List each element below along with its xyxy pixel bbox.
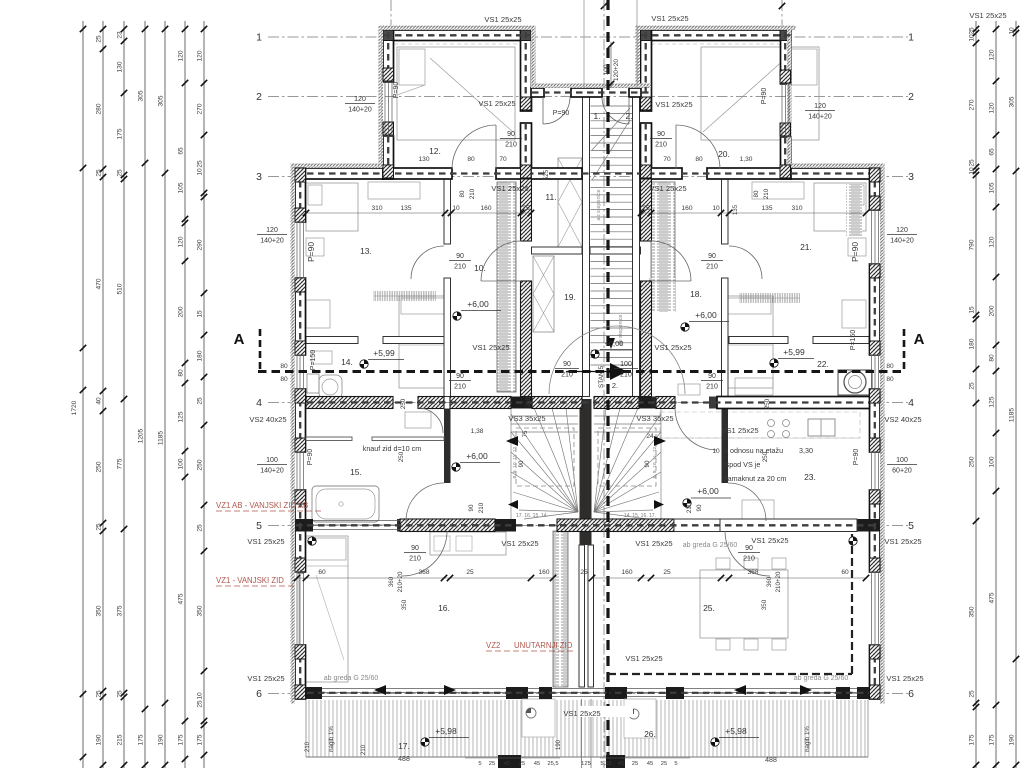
knauf partition wall room15 bbox=[306, 437, 352, 441]
grid3 wall band bbox=[295, 168, 383, 179]
svg-text:25: 25 bbox=[96, 690, 103, 698]
svg-text:A: A bbox=[914, 331, 925, 348]
svg-text:80: 80 bbox=[886, 376, 894, 383]
wall rooms 18/21 partition x721 bbox=[722, 179, 729, 244]
grid6 wall band blocks bbox=[295, 687, 322, 699]
svg-text:120: 120 bbox=[266, 227, 278, 234]
svg-text:+6,00: +6,00 bbox=[605, 339, 624, 348]
door room10 bbox=[481, 241, 521, 281]
right dimension column 2 bbox=[989, 21, 1000, 768]
svg-text:25: 25 bbox=[969, 27, 976, 35]
dashed beam outline room 25 bbox=[608, 673, 852, 675]
winder stair right fan bbox=[594, 408, 661, 519]
grid6 extra blocks bbox=[539, 687, 552, 699]
svg-text:210: 210 bbox=[620, 372, 632, 379]
svg-text:210+20: 210+20 bbox=[397, 571, 404, 592]
svg-text:45: 45 bbox=[647, 761, 653, 767]
insulated wall strip room 18 bbox=[651, 182, 675, 308]
svg-text:25: 25 bbox=[969, 690, 976, 698]
svg-text:25,5: 25,5 bbox=[547, 761, 558, 767]
svg-text:80: 80 bbox=[467, 156, 475, 163]
svg-text:105: 105 bbox=[989, 182, 996, 193]
partition rooms13/14 y336 bbox=[306, 337, 358, 344]
svg-text:350: 350 bbox=[969, 606, 976, 617]
svg-text:u odnosu na etažu: u odnosu na etažu bbox=[724, 446, 783, 455]
svg-text:250: 250 bbox=[96, 461, 103, 472]
door bath 14 grid4 bbox=[418, 408, 443, 433]
jamb hatch blocks outer right wall bbox=[870, 168, 881, 182]
stair tower projection lines top bbox=[583, 0, 585, 88]
svg-text:135: 135 bbox=[732, 204, 739, 215]
svg-text:250: 250 bbox=[400, 398, 407, 409]
svg-text:2: 2 bbox=[908, 91, 914, 103]
svg-text:175: 175 bbox=[197, 734, 204, 745]
svg-text:6: 6 bbox=[256, 688, 262, 700]
svg-text:25: 25 bbox=[642, 205, 650, 212]
svg-text:80: 80 bbox=[459, 190, 466, 197]
svg-text:8. 9. 10. 11. 12.: 8. 9. 10. 11. 12. bbox=[652, 446, 658, 479]
center axis dash-dot line bbox=[603, 0, 605, 768]
svg-text:25: 25 bbox=[197, 524, 204, 532]
svg-text:350: 350 bbox=[197, 605, 204, 616]
bathtub room 15 bbox=[312, 486, 379, 522]
kitchen sink room 23 bbox=[808, 419, 835, 436]
party double wall below grid5 bbox=[579, 545, 585, 687]
big entry swing arc bbox=[549, 326, 685, 394]
bed room 20 bbox=[701, 47, 819, 140]
outer right wall (windows) bbox=[870, 168, 881, 210]
kitchen hob room 23 bbox=[768, 420, 775, 427]
party wall lines through terrace bbox=[581, 699, 583, 768]
svg-text:15: 15 bbox=[197, 310, 204, 318]
svg-text:250: 250 bbox=[651, 396, 658, 407]
svg-text:350: 350 bbox=[96, 605, 103, 616]
detail dots grid5 bbox=[308, 537, 316, 545]
svg-text:120: 120 bbox=[814, 103, 826, 110]
svg-text:VS1 25x25: VS1 25x25 bbox=[886, 674, 923, 683]
svg-text:2.: 2. bbox=[612, 381, 618, 390]
svg-text:4: 4 bbox=[908, 397, 914, 409]
svg-text:VS1 25x25: VS1 25x25 bbox=[649, 184, 686, 193]
svg-text:+5,99: +5,99 bbox=[373, 348, 395, 358]
top wall room 12 bbox=[383, 30, 531, 41]
svg-text:80: 80 bbox=[280, 376, 288, 383]
svg-text:90: 90 bbox=[708, 373, 716, 380]
winder stair left fan bbox=[511, 408, 578, 519]
svg-text:1185: 1185 bbox=[158, 431, 165, 446]
svg-text:210: 210 bbox=[763, 188, 770, 199]
svg-text:125: 125 bbox=[178, 411, 185, 422]
svg-text:175: 175 bbox=[969, 734, 976, 745]
svg-text:nagib 1%: nagib 1% bbox=[328, 726, 335, 752]
svg-text:90: 90 bbox=[456, 373, 464, 380]
svg-text:ispod VS je: ispod VS je bbox=[724, 460, 760, 469]
stipple band outer left wall bbox=[291, 164, 296, 704]
svg-text:140+20: 140+20 bbox=[260, 238, 284, 245]
terrace bottom columns bbox=[498, 755, 521, 768]
dresser room 13 bbox=[306, 300, 330, 328]
svg-text:1205: 1205 bbox=[138, 428, 145, 443]
svg-text:270: 270 bbox=[969, 99, 976, 110]
svg-text:18.: 18. bbox=[690, 289, 702, 299]
dim row rooms 13/10 y213 bbox=[306, 212, 531, 214]
left wall room 20 (door gap) bbox=[641, 30, 652, 111]
svg-text:16.: 16. bbox=[438, 603, 450, 613]
svg-text:250: 250 bbox=[764, 398, 771, 409]
dim line above recess bbox=[610, 42, 612, 88]
door room25 grid5 bbox=[725, 531, 770, 576]
svg-text:360: 360 bbox=[766, 576, 773, 587]
svg-text:10: 10 bbox=[452, 205, 460, 212]
svg-text:160: 160 bbox=[480, 205, 491, 212]
svg-text:120: 120 bbox=[178, 236, 185, 247]
svg-text:14.: 14. bbox=[341, 357, 353, 367]
svg-text:175: 175 bbox=[178, 734, 185, 745]
svg-text:25: 25 bbox=[489, 761, 495, 767]
svg-text:775: 775 bbox=[117, 458, 124, 469]
svg-text:3: 3 bbox=[256, 171, 262, 183]
svg-text:25: 25 bbox=[969, 382, 976, 390]
svg-text:210: 210 bbox=[361, 744, 367, 755]
svg-text:1.: 1. bbox=[593, 111, 600, 121]
svg-text:90: 90 bbox=[456, 253, 464, 260]
svg-text:210: 210 bbox=[478, 502, 485, 513]
svg-text:25.: 25. bbox=[703, 603, 715, 613]
svg-text:15: 15 bbox=[969, 306, 976, 314]
svg-text:210: 210 bbox=[706, 264, 718, 271]
svg-text:210: 210 bbox=[409, 556, 421, 563]
svg-text:100: 100 bbox=[620, 361, 632, 368]
svg-text:2.: 2. bbox=[625, 111, 632, 121]
svg-text:knauf zid d=10 cm: knauf zid d=10 cm bbox=[363, 444, 422, 453]
svg-text:45: 45 bbox=[534, 761, 540, 767]
svg-text:25: 25 bbox=[522, 205, 530, 212]
stipple band outer right wall bbox=[880, 164, 885, 704]
right dimension column 1 bbox=[969, 21, 980, 768]
svg-text:25: 25 bbox=[96, 523, 103, 531]
wall bath 15 x444 lower bbox=[444, 409, 451, 484]
svg-text:210: 210 bbox=[469, 188, 476, 199]
svg-text:ab stepenice: ab stepenice bbox=[596, 189, 602, 220]
svg-text:26.: 26. bbox=[644, 729, 656, 739]
svg-text:305: 305 bbox=[1009, 96, 1016, 107]
svg-text:190: 190 bbox=[96, 734, 103, 745]
svg-text:210+20: 210+20 bbox=[775, 571, 782, 592]
elevation marker +6.00 mid left bbox=[452, 463, 460, 471]
svg-text:25: 25 bbox=[117, 690, 124, 698]
svg-text:135: 135 bbox=[400, 205, 411, 212]
bed room 10 bbox=[399, 296, 448, 388]
svg-text:ab greda G 25/60: ab greda G 25/60 bbox=[324, 675, 379, 682]
svg-text:250: 250 bbox=[197, 459, 204, 470]
bed room 12 bbox=[397, 47, 515, 140]
bed room 19 bbox=[724, 296, 773, 388]
svg-text:120: 120 bbox=[178, 50, 185, 61]
windows outer left wall bbox=[296, 222, 298, 278]
svg-text:470: 470 bbox=[96, 278, 103, 289]
svg-text:25: 25 bbox=[117, 169, 124, 177]
svg-text:VS2 40x25: VS2 40x25 bbox=[884, 415, 921, 424]
svg-text:VS3 35x25: VS3 35x25 bbox=[508, 414, 545, 423]
dim row lower band y576 bbox=[297, 577, 553, 579]
svg-text:180: 180 bbox=[197, 350, 204, 361]
svg-text:310: 310 bbox=[791, 205, 802, 212]
svg-text:200: 200 bbox=[178, 306, 185, 317]
radiator comb room 21 bbox=[740, 293, 800, 303]
left dimension column 5 bbox=[158, 21, 169, 768]
svg-text:ab greda G 25/60: ab greda G 25/60 bbox=[683, 542, 738, 549]
svg-text:105: 105 bbox=[178, 182, 185, 193]
svg-text:25: 25 bbox=[663, 569, 671, 576]
svg-text:350: 350 bbox=[761, 599, 768, 610]
party wall insulation strip bbox=[553, 531, 568, 687]
left wall room 12 (window gap) bbox=[383, 30, 394, 82]
svg-text:120: 120 bbox=[354, 96, 366, 103]
svg-text:nagib 1%: nagib 1% bbox=[804, 726, 811, 752]
svg-text:zamaknut za 20 cm: zamaknut za 20 cm bbox=[724, 474, 786, 483]
svg-text:21.: 21. bbox=[800, 242, 812, 252]
svg-text:VS1 25x25: VS1 25x25 bbox=[491, 184, 528, 193]
grid5 window left bbox=[313, 520, 400, 522]
svg-text:310: 310 bbox=[371, 205, 382, 212]
svg-text:210: 210 bbox=[743, 556, 755, 563]
svg-text:120+20: 120+20 bbox=[613, 59, 620, 82]
svg-text:130: 130 bbox=[117, 61, 124, 72]
svg-text:70: 70 bbox=[499, 156, 507, 163]
svg-text:60: 60 bbox=[841, 569, 849, 576]
svg-text:VS1 25x25: VS1 25x25 bbox=[635, 539, 672, 548]
svg-text:5,25: 5,25 bbox=[600, 761, 611, 767]
svg-text:1: 1 bbox=[256, 32, 262, 44]
bidet room 14 bbox=[312, 351, 332, 364]
svg-text:120: 120 bbox=[989, 49, 996, 60]
windows outer right wall bbox=[871, 210, 873, 264]
stipple band top walls bbox=[379, 26, 536, 31]
door room13 wall x444 bbox=[411, 246, 444, 279]
svg-text:P=90: P=90 bbox=[306, 242, 316, 262]
svg-text:210: 210 bbox=[686, 502, 693, 513]
svg-text:305: 305 bbox=[138, 90, 145, 101]
window room12 left bbox=[384, 82, 386, 136]
svg-text:80: 80 bbox=[178, 369, 185, 377]
svg-text:25: 25 bbox=[519, 761, 525, 767]
entry door right bbox=[602, 97, 629, 124]
svg-text:10: 10 bbox=[1009, 27, 1016, 35]
stipple band grid3 exposed bbox=[291, 164, 384, 169]
svg-text:90: 90 bbox=[708, 253, 716, 260]
svg-text:3: 3 bbox=[908, 171, 914, 183]
svg-text:25: 25 bbox=[661, 761, 667, 767]
svg-text:120: 120 bbox=[989, 102, 996, 113]
VS beam label halo bbox=[578, 706, 633, 717]
svg-text:VS1 25x25: VS1 25x25 bbox=[651, 14, 688, 23]
right wall room 20 (window gap) bbox=[781, 30, 792, 84]
outer left wall (windows) bbox=[295, 168, 306, 222]
svg-text:210: 210 bbox=[305, 741, 311, 752]
svg-text:11.: 11. bbox=[545, 192, 556, 202]
svg-text:120: 120 bbox=[989, 236, 996, 247]
svg-text:P=90: P=90 bbox=[393, 82, 400, 99]
svg-text:17.: 17. bbox=[398, 741, 410, 751]
door room21 wall x721 bbox=[729, 246, 762, 279]
left dimension column 1 bbox=[82, 21, 84, 768]
svg-text:40: 40 bbox=[96, 397, 103, 405]
svg-text:80: 80 bbox=[695, 156, 703, 163]
jamb blocks top room walls bbox=[383, 122, 394, 135]
top axis marks bbox=[601, 3, 607, 9]
recess entry wall y88 bbox=[531, 88, 544, 97]
beam dashes inside walls bbox=[384, 34, 531, 36]
svg-text:3,30: 3,30 bbox=[799, 446, 813, 455]
wardrobe X room 11 bbox=[558, 158, 582, 247]
washbasin room 14 bbox=[405, 412, 431, 428]
svg-text:140+20: 140+20 bbox=[890, 238, 914, 245]
partition room18 y247 bbox=[590, 247, 641, 254]
svg-text:VZ1 - VANJSKI ZID: VZ1 - VANJSKI ZID bbox=[216, 576, 284, 585]
svg-text:10: 10 bbox=[197, 692, 204, 700]
svg-text:VS1 25x25: VS1 25x25 bbox=[501, 539, 538, 548]
svg-text:368: 368 bbox=[747, 569, 758, 576]
stipple band top room side walls bbox=[379, 30, 384, 168]
room19 stair wall x640 bbox=[641, 179, 652, 241]
bed room 21 bbox=[814, 183, 866, 231]
jamb hatch blocks outer left wall bbox=[295, 168, 306, 182]
svg-text:VS1 25x25: VS1 25x25 bbox=[884, 537, 921, 546]
stair direction black arrow bbox=[610, 363, 627, 380]
svg-text:25: 25 bbox=[197, 700, 204, 708]
svg-text:90: 90 bbox=[644, 460, 651, 467]
insulated wall strip beside room 10 bbox=[497, 182, 516, 392]
svg-text:60: 60 bbox=[318, 569, 326, 576]
svg-text:360: 360 bbox=[388, 576, 395, 587]
dresser room 21 bbox=[842, 300, 866, 328]
svg-text:+6,00: +6,00 bbox=[467, 299, 489, 309]
svg-text:90: 90 bbox=[468, 504, 475, 511]
svg-text:65: 65 bbox=[989, 148, 996, 156]
svg-text:375: 375 bbox=[117, 605, 124, 616]
svg-text:90: 90 bbox=[411, 545, 419, 552]
door room19 bbox=[651, 241, 691, 281]
svg-text:90: 90 bbox=[507, 131, 515, 138]
svg-text:+6,00: +6,00 bbox=[697, 486, 719, 496]
svg-text:100: 100 bbox=[266, 457, 278, 464]
svg-text:190: 190 bbox=[158, 734, 165, 745]
svg-text:210: 210 bbox=[454, 384, 466, 391]
svg-text:VS1 25x25: VS1 25x25 bbox=[472, 343, 509, 352]
svg-text:140+20: 140+20 bbox=[348, 107, 372, 114]
svg-text:100: 100 bbox=[178, 458, 185, 469]
svg-text:45: 45 bbox=[504, 761, 510, 767]
svg-text:1,30: 1,30 bbox=[740, 156, 753, 163]
svg-text:175: 175 bbox=[138, 734, 145, 745]
window room20 right bbox=[781, 84, 783, 137]
svg-text:25: 25 bbox=[969, 159, 976, 167]
stair flight diagonal walk lines bbox=[592, 108, 630, 150]
svg-text:5: 5 bbox=[908, 520, 914, 532]
svg-text:65: 65 bbox=[178, 147, 185, 155]
svg-text:VS1 25x25: VS1 25x25 bbox=[563, 709, 600, 718]
svg-text:VS1 25x25: VS1 25x25 bbox=[247, 674, 284, 683]
small down arrow stair bbox=[607, 338, 615, 349]
svg-text:175: 175 bbox=[117, 128, 124, 139]
door right hall grid4 bbox=[675, 408, 717, 450]
grid6 glazed openings bbox=[322, 688, 506, 690]
svg-text:368: 368 bbox=[418, 569, 429, 576]
svg-text:10: 10 bbox=[969, 167, 976, 175]
svg-text:23: 23 bbox=[117, 31, 124, 39]
svg-text:90: 90 bbox=[657, 131, 665, 138]
svg-text:VS1 25x25: VS1 25x25 bbox=[654, 343, 691, 352]
kitchen counter room 16 bbox=[430, 532, 506, 555]
terrace decking hatch bbox=[306, 700, 868, 757]
elevation marker +6.00 mid right bbox=[683, 499, 691, 507]
svg-text:24: 24 bbox=[646, 433, 654, 440]
svg-text:STAN 5: STAN 5 bbox=[598, 365, 605, 388]
svg-text:A: A bbox=[234, 331, 245, 348]
svg-text:80: 80 bbox=[989, 354, 996, 362]
svg-text:488: 488 bbox=[765, 757, 777, 764]
svg-text:VS1 25x25: VS1 25x25 bbox=[969, 11, 1006, 20]
svg-text:VZ1 AB - VANJSKI ZID AB: VZ1 AB - VANJSKI ZID AB bbox=[216, 501, 308, 510]
svg-text:25: 25 bbox=[580, 569, 588, 576]
svg-text:19.: 19. bbox=[564, 292, 576, 302]
svg-text:P=90: P=90 bbox=[853, 449, 860, 466]
svg-text:305: 305 bbox=[158, 95, 165, 106]
svg-text:120: 120 bbox=[896, 227, 908, 234]
svg-text:25: 25 bbox=[96, 35, 103, 43]
door room12 bbox=[452, 125, 496, 169]
svg-text:90: 90 bbox=[745, 545, 753, 552]
svg-text:135: 135 bbox=[761, 205, 772, 212]
stipple band recess wall bbox=[531, 84, 651, 89]
bed room 13 bbox=[306, 183, 358, 231]
left dimension column 2 bbox=[96, 21, 107, 768]
svg-text:VS1 25x25: VS1 25x25 bbox=[625, 654, 662, 663]
svg-text:ab greda G 25/60: ab greda G 25/60 bbox=[794, 675, 849, 682]
door bath15 bbox=[406, 483, 444, 521]
washer room 22 bbox=[838, 370, 872, 395]
kitchen counters room 23 bbox=[660, 437, 860, 439]
bed room 16 bbox=[299, 536, 348, 682]
svg-text:25: 25 bbox=[632, 761, 638, 767]
svg-text:1720: 1720 bbox=[71, 400, 78, 415]
door room16 grid5 bbox=[402, 531, 447, 576]
svg-text:VS1 25x25: VS1 25x25 bbox=[751, 536, 788, 545]
door right unit mid bbox=[728, 483, 766, 521]
svg-text:100: 100 bbox=[603, 64, 610, 75]
svg-text:80: 80 bbox=[753, 190, 760, 197]
elevation marker +6.00 room10 bbox=[453, 312, 461, 320]
svg-text:210: 210 bbox=[454, 264, 466, 271]
svg-text:85: 85 bbox=[297, 569, 305, 576]
wall rooms 13/10 partition x444 bbox=[444, 179, 451, 244]
svg-text:80: 80 bbox=[280, 363, 288, 370]
svg-text:140+20: 140+20 bbox=[260, 468, 284, 475]
svg-text:75: 75 bbox=[522, 430, 529, 437]
svg-text:2: 2 bbox=[256, 91, 262, 103]
winder direction arrows bbox=[506, 436, 518, 446]
svg-text:5: 5 bbox=[674, 761, 677, 767]
svg-text:P=90: P=90 bbox=[850, 242, 860, 262]
vent marker left bbox=[526, 708, 536, 718]
svg-text:17. 16. 15. 14.: 17. 16. 15. 14. bbox=[516, 513, 548, 519]
right dimension column 3 bbox=[1009, 21, 1020, 768]
svg-text:10: 10 bbox=[969, 34, 976, 42]
svg-text:VS1 25x25: VS1 25x25 bbox=[721, 426, 758, 435]
svg-text:P=150: P=150 bbox=[850, 330, 857, 351]
svg-text:160: 160 bbox=[621, 569, 632, 576]
svg-text:215: 215 bbox=[117, 734, 124, 745]
